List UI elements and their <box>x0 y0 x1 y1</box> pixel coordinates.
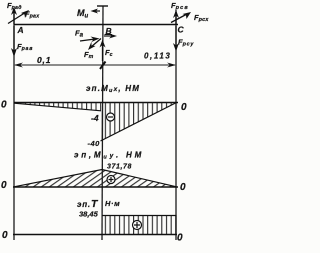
svg-text:Fт: Fт <box>84 50 94 60</box>
label Н.м <box>105 199 120 208</box>
force Frax (diagonal arrow at A) <box>8 10 40 24</box>
Mx diagram axis <box>14 102 178 104</box>
Mx triangle B-C hatched <box>101 103 177 142</box>
svg-text:0,113: 0,113 <box>144 52 171 61</box>
svg-text:0: 0 <box>2 230 8 241</box>
dimension line <box>14 62 176 70</box>
force Frcv (up arrow at C) <box>171 1 189 24</box>
reference line C <box>175 10 177 240</box>
beam <box>14 24 178 26</box>
arrow right at B <box>104 34 117 39</box>
svg-text:эп.Мих, НМ: эп.Мих, НМ <box>86 84 140 94</box>
zero label right axis3 <box>177 233 183 244</box>
Mx wedge A-B hatched <box>14 103 101 111</box>
label Эп.Мих, НМ <box>86 84 140 94</box>
value 38,45 <box>79 210 99 219</box>
dimension value 0,113 <box>144 52 171 61</box>
zero label left axis1 <box>1 100 7 111</box>
node B label <box>106 26 112 36</box>
svg-text:эп,Миу. НМ: эп,Миу. НМ <box>74 151 144 161</box>
plus sign circle T <box>133 221 142 230</box>
svg-text:C: C <box>178 25 185 35</box>
value -40 <box>88 139 101 148</box>
svg-text:0: 0 <box>1 180 7 191</box>
svg-text:Fс: Fс <box>105 48 113 58</box>
svg-text:0: 0 <box>177 233 183 244</box>
T diagram axis <box>13 234 177 236</box>
My triangle hatched <box>14 170 177 187</box>
svg-text:-4: -4 <box>91 113 99 123</box>
reference line B <box>102 6 103 240</box>
T rectangle hatched <box>103 216 177 235</box>
svg-text:Fрах: Fрах <box>25 10 40 20</box>
force Fa label <box>75 29 84 39</box>
My diagram axis <box>13 186 178 188</box>
label Эп.Т <box>77 198 99 210</box>
moment Mi T-bar <box>97 5 108 7</box>
zero label left axis2 <box>1 180 7 191</box>
svg-text:Ми: Ми <box>77 8 89 20</box>
svg-text:A: A <box>17 25 24 35</box>
force Fa arrow <box>80 37 100 43</box>
svg-text:эп.Т: эп.Т <box>77 198 99 210</box>
svg-text:0,1: 0,1 <box>37 55 51 65</box>
svg-text:38,45: 38,45 <box>79 210 99 219</box>
svg-text:Н·м: Н·м <box>105 199 120 208</box>
zero label right axis2 <box>180 182 186 193</box>
force Frcx (diagonal arrow at C) <box>171 12 209 23</box>
node A label <box>17 25 24 35</box>
node C label <box>178 25 185 35</box>
label Эп.Миу, НМ <box>74 151 144 161</box>
moment Mi arrow (points left) <box>91 9 101 14</box>
svg-text:Fа: Fа <box>75 29 84 39</box>
svg-text:Fрсх: Fрсх <box>194 13 209 23</box>
svg-text:Fрад: Fрад <box>7 1 22 11</box>
force Fc vertical arrow at B <box>100 40 113 62</box>
force Ft diagonal arrow at B <box>84 39 101 61</box>
svg-text:Fрсу: Fрсу <box>178 38 194 48</box>
moment Mi label <box>77 8 89 20</box>
svg-text:-40: -40 <box>88 139 101 148</box>
minus sign circle <box>107 113 115 121</box>
svg-text:0: 0 <box>181 102 187 113</box>
plus sign circle My <box>107 176 115 184</box>
svg-text:Fрав: Fрав <box>17 42 33 52</box>
zero label right axis1 <box>181 102 187 113</box>
reference line A <box>13 8 15 240</box>
value 371,78 <box>107 164 132 171</box>
zero label left axis3 <box>2 230 8 241</box>
force Frav (down arrow below A) <box>11 26 33 57</box>
svg-text:371,78: 371,78 <box>107 164 132 171</box>
value -4 <box>91 113 99 123</box>
force Frad (up arrow at A) <box>7 1 22 24</box>
svg-text:Fрсв: Fрсв <box>171 1 189 11</box>
svg-text:0: 0 <box>1 100 7 111</box>
svg-text:0: 0 <box>180 182 186 193</box>
force Frcy (down arrow below C) <box>173 26 194 52</box>
dimension value 0,1 <box>37 55 51 65</box>
